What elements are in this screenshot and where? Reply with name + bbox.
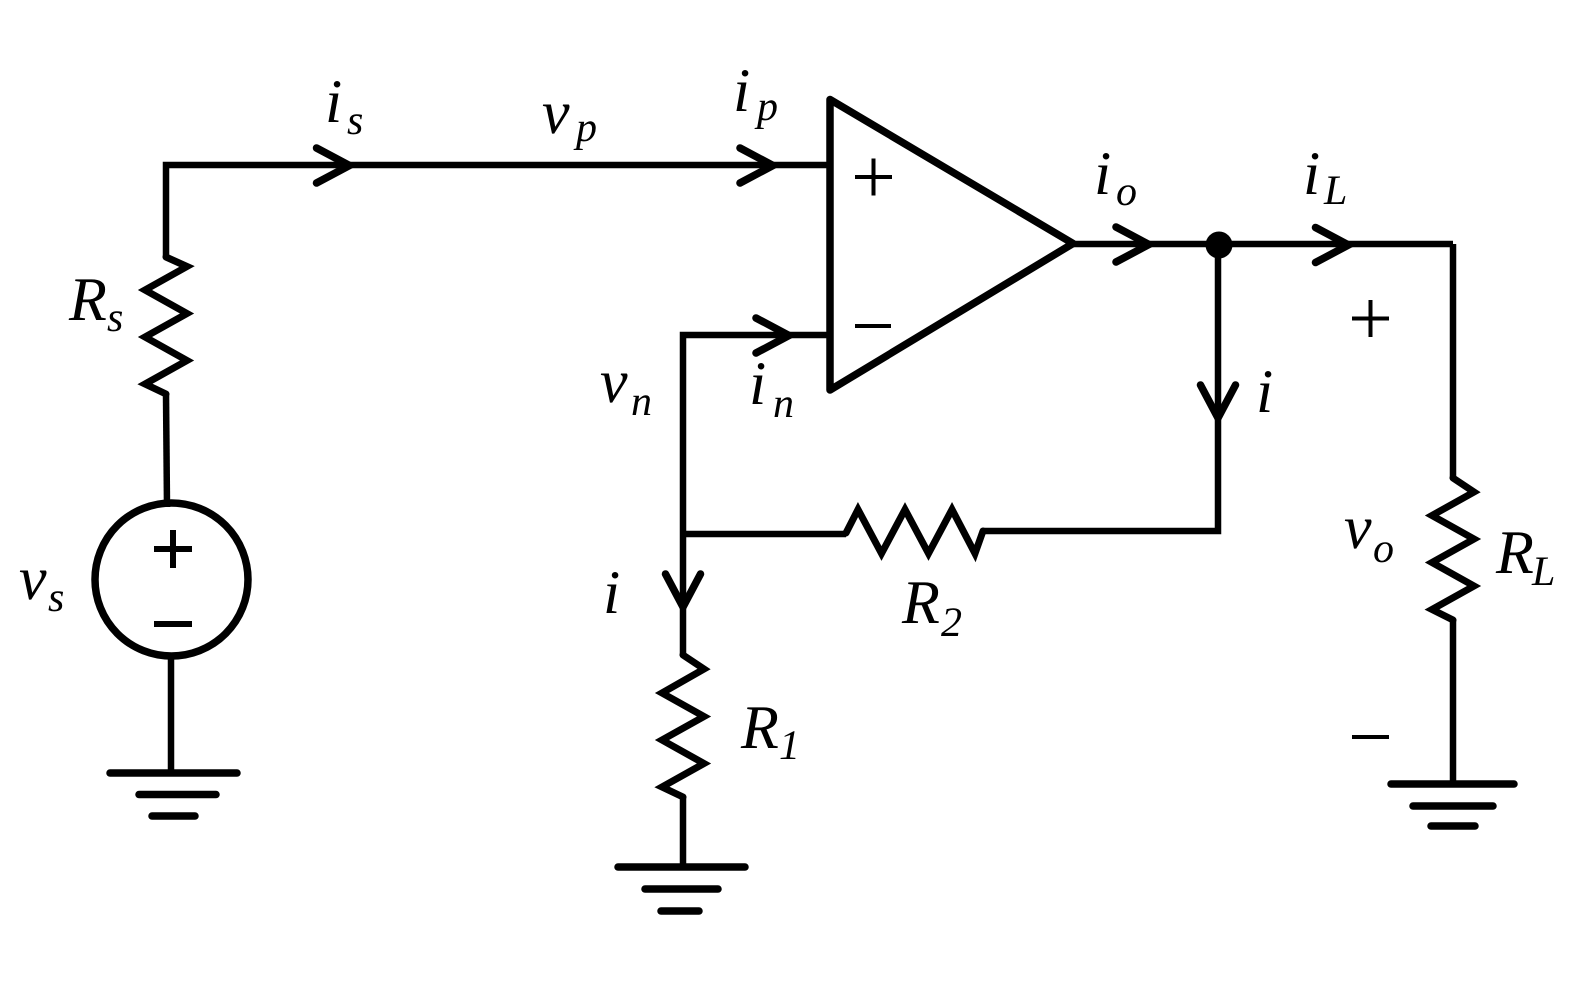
label vp: [543, 105, 570, 134]
label vo: [1345, 520, 1372, 549]
minus sign at RL bottom: [1352, 735, 1389, 739]
label RL: [1496, 532, 1533, 573]
wire vn junction to R2: [683, 531, 846, 538]
label io: [1097, 153, 1109, 194]
label i feedback branch: [1259, 371, 1271, 412]
label vn: [601, 374, 628, 403]
wire source to ground: [168, 655, 175, 775]
op-amp plus marker: [855, 175, 892, 179]
label ip: [736, 70, 748, 111]
arrow i on R1 branch: [666, 574, 701, 607]
label R2: [902, 582, 939, 623]
wire Rs to source vs: [166, 394, 167, 507]
arrow i on feedback branch: [1201, 385, 1236, 418]
ground under RL: [1391, 780, 1514, 788]
label in: [752, 363, 764, 404]
wire output node to RL: [1450, 244, 1457, 478]
arrow is on top wire: [317, 148, 350, 183]
label iL: [1306, 153, 1318, 194]
label is: [328, 81, 340, 122]
label Rs: [69, 279, 106, 320]
ground under vs: [110, 769, 237, 777]
arrow io at op-amp output: [1116, 227, 1149, 262]
voltage source vs: [95, 503, 248, 656]
op-amp minus marker: [855, 324, 891, 328]
wire op-amp output rail: [1073, 241, 1453, 248]
op-amp U1: [830, 100, 1073, 391]
wire top rail from Rs corner to op-amp noninverting input: [166, 165, 830, 257]
resistor R1: [662, 655, 704, 797]
arrow ip at op-amp + input: [740, 148, 773, 183]
label R1: [741, 707, 778, 748]
node dot output junction: [1206, 232, 1233, 259]
label vs: [20, 571, 47, 600]
wire RL to ground: [1450, 620, 1457, 786]
minus sign in source: [154, 621, 192, 627]
resistor R2: [846, 510, 983, 554]
plus sign in source: [154, 546, 192, 552]
label i R1 branch: [606, 572, 618, 613]
resistor RL: [1432, 478, 1474, 620]
ground under R1: [618, 863, 745, 871]
wire R2 to output node: [983, 245, 1218, 531]
arrow iL on load wire: [1316, 228, 1349, 263]
plus sign at RL top: [1352, 317, 1389, 321]
wire R1 to ground: [680, 797, 687, 869]
resistor Rs: [145, 257, 187, 394]
wire node vn to op-amp inverting input: [683, 335, 829, 655]
arrow in on inverting input wire: [756, 318, 789, 353]
